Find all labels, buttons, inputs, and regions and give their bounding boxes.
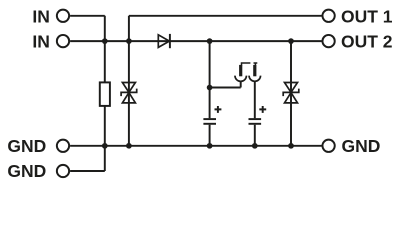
svg-text:GND: GND (7, 161, 46, 181)
junction rail x209.6 (207, 143, 213, 149)
TVS diode TVS1 middle bar with zener hooks (121, 89, 137, 97)
svg-text:IN: IN (32, 6, 50, 26)
TVS diode TVS1 top triangle (122, 83, 135, 93)
wire mid horizontal (node C to electrode E1) (210, 87, 241, 89)
electrode E2 bar (253, 65, 256, 76)
terminal IN 2 (57, 35, 69, 47)
terminal GND left 1 (57, 140, 69, 152)
wire GND2 horizontal (70, 170, 105, 172)
terminal GND left 2 (57, 165, 69, 177)
wire vertical node B through TVS1 branch (128, 16, 130, 146)
junction rail x254.8 (252, 143, 258, 149)
wire electrode E1 bottom lead (240, 81, 242, 87)
wire C1 top lead (209, 41, 211, 118)
junction rail x104.8 (102, 143, 108, 149)
wire C1 bottom lead (209, 125, 211, 146)
capacitor C1 plus sign (215, 106, 222, 113)
TVS diode TVS2 top triangle (285, 83, 298, 93)
wire electrode E2 bottom lead to C2 (254, 81, 256, 118)
junction rail x128.9 (126, 143, 132, 149)
electrode E1 top hook (242, 63, 251, 66)
wire C2 bottom lead (254, 125, 256, 146)
TVS diode TVS2 middle bar with zener hooks (283, 89, 299, 97)
svg-text:IN: IN (32, 32, 50, 52)
TVS diode TVS1 bottom triangle (122, 93, 135, 103)
terminal GND right (322, 140, 334, 152)
wire row 2 (IN2 to OUT2 through diode) (70, 40, 321, 42)
svg-text:OUT 2: OUT 2 (341, 32, 393, 52)
resistor R1 (100, 82, 110, 106)
capacitor C2 bottom plate (249, 123, 262, 125)
junction node B (row2 x128.9) (126, 38, 132, 44)
ground rail (70, 145, 321, 147)
capacitor C2 top plate (249, 118, 262, 120)
junction node C (mid x209.6) (207, 85, 213, 91)
electrode E1 cup (235, 76, 247, 82)
capacitor C1 bottom plate (203, 123, 216, 125)
electrode E2 top tick (254, 63, 258, 66)
svg-text:OUT 1: OUT 1 (341, 6, 393, 26)
junction C1 top (row2 x209.6) (207, 38, 213, 44)
wire row 1 (node B to OUT1) (129, 15, 322, 17)
diode D1 (158, 35, 169, 48)
wire IN1 to node A (70, 15, 105, 17)
svg-text:GND: GND (7, 136, 46, 156)
junction TVS2 top (row2 x291) (288, 38, 294, 44)
electrode E2 cup (249, 76, 260, 82)
wire vertical TVS2 branch (290, 41, 292, 146)
wire vertical node A through resistor branch (104, 16, 106, 171)
junction rail x291 (288, 143, 294, 149)
terminal OUT 1 (322, 10, 334, 22)
terminal OUT 2 (322, 35, 334, 47)
electrode E1 bar (239, 65, 242, 76)
terminal IN 1 (57, 10, 69, 22)
capacitor C2 plus sign (259, 106, 266, 113)
junction node A (row2 x104.8) (102, 38, 108, 44)
svg-text:GND: GND (342, 136, 381, 156)
diode D1 cathode bar (169, 34, 171, 48)
TVS diode TVS2 bottom triangle (285, 93, 298, 103)
capacitor C1 top plate (203, 118, 216, 120)
